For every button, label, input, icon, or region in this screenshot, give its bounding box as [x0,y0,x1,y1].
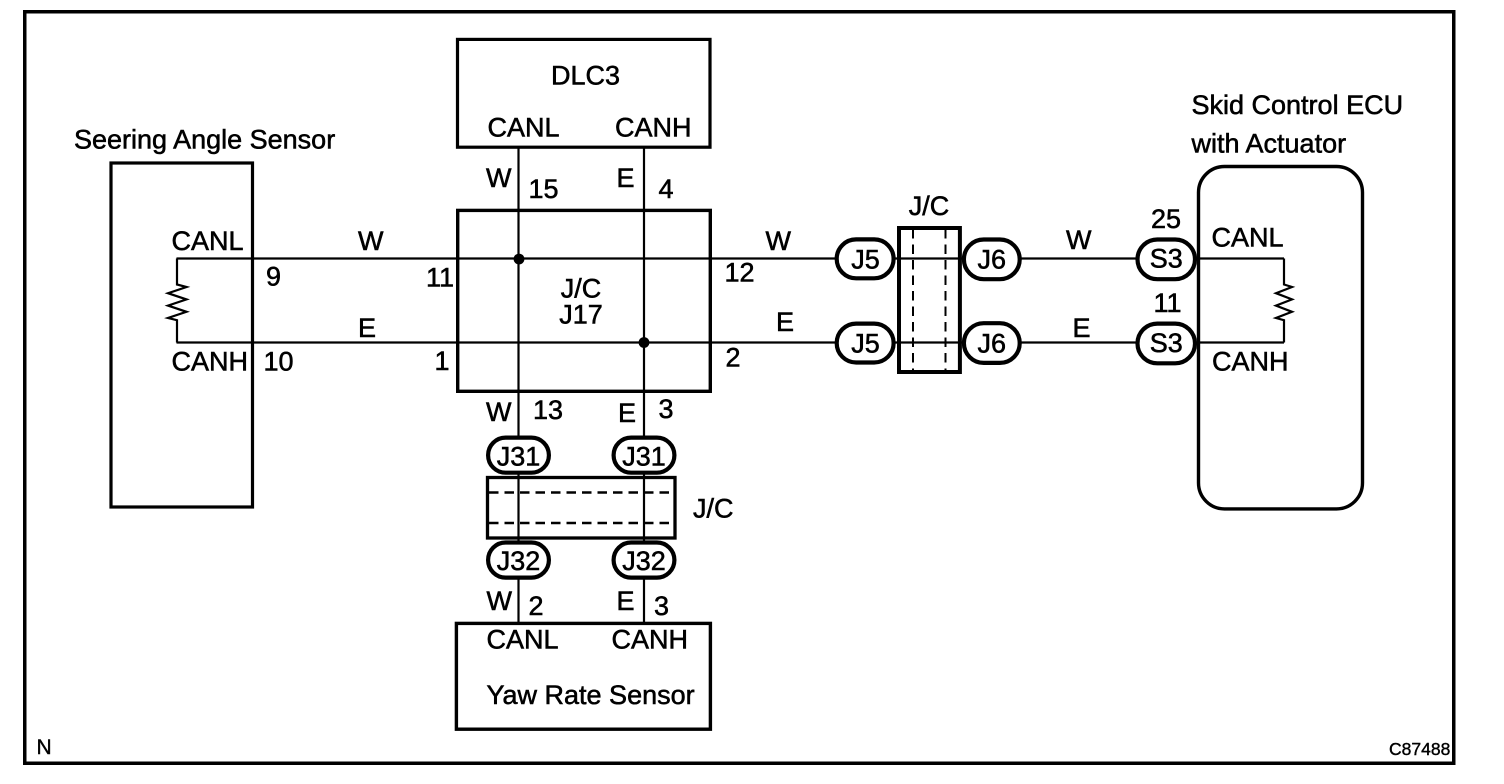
svg-text:W: W [1066,225,1092,255]
svg-text:J31: J31 [622,442,666,472]
svg-text:CANL: CANL [172,226,244,256]
svg-text:Skid Control ECU: Skid Control ECU [1192,90,1404,120]
svg-text:J5: J5 [851,245,880,275]
svg-text:CANL: CANL [1212,223,1284,253]
svg-text:CANH: CANH [615,113,692,143]
svg-text:E: E [1073,313,1091,343]
svg-text:12: 12 [725,258,755,288]
svg-text:11: 11 [1154,288,1182,318]
svg-text:J32: J32 [622,546,666,576]
svg-text:W: W [486,163,512,193]
svg-text:1: 1 [435,346,450,376]
svg-text:J/C: J/C [909,191,950,221]
svg-text:Yaw Rate Sensor: Yaw Rate Sensor [487,680,695,710]
svg-text:S3: S3 [1150,328,1183,358]
svg-text:J6: J6 [978,329,1007,359]
svg-text:J32: J32 [497,546,541,576]
svg-text:CANH: CANH [172,347,249,377]
svg-text:15: 15 [529,174,559,204]
svg-text:DLC3: DLC3 [551,61,620,91]
svg-text:N: N [37,736,52,759]
svg-text:13: 13 [533,395,563,425]
svg-text:CANL: CANL [487,625,559,655]
svg-text:J6: J6 [978,245,1007,275]
svg-text:W: W [358,226,384,256]
svg-text:25: 25 [1151,204,1181,234]
svg-text:3: 3 [654,591,669,621]
svg-text:3: 3 [659,394,674,424]
svg-text:CANL: CANL [488,113,560,143]
svg-text:with Actuator: with Actuator [1191,129,1347,159]
svg-text:W: W [486,397,512,427]
svg-text:C87488: C87488 [1389,739,1450,759]
svg-text:E: E [776,307,794,337]
svg-text:E: E [358,313,376,343]
svg-text:E: E [617,163,635,193]
svg-text:11: 11 [426,263,454,293]
svg-text:J31: J31 [497,442,541,472]
svg-text:2: 2 [726,343,741,373]
svg-text:2: 2 [529,591,544,621]
svg-text:W: W [487,586,513,616]
svg-text:10: 10 [264,347,294,377]
svg-text:S3: S3 [1150,244,1183,274]
svg-text:J5: J5 [851,329,880,359]
svg-text:9: 9 [266,262,281,292]
svg-text:E: E [617,586,635,616]
svg-text:CANH: CANH [612,625,689,655]
svg-text:Seering Angle Sensor: Seering Angle Sensor [74,125,335,155]
svg-text:J17: J17 [559,300,603,330]
svg-text:4: 4 [659,174,674,204]
svg-text:J/C: J/C [693,494,734,524]
svg-text:W: W [766,226,792,256]
svg-text:CANH: CANH [1212,347,1289,377]
svg-text:E: E [618,398,636,428]
